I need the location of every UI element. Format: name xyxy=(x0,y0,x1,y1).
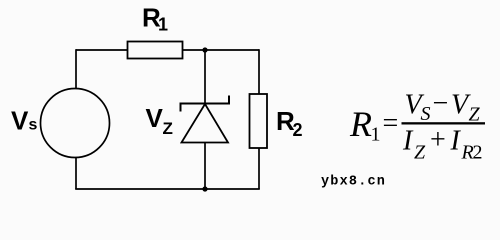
svg-text:−: − xyxy=(433,88,449,119)
wire bottom horizontal xyxy=(75,188,260,190)
node junction top xyxy=(202,47,207,52)
svg-text:Z: Z xyxy=(414,142,426,164)
wire right vertical upper xyxy=(258,49,260,94)
svg-text:=: = xyxy=(383,108,399,139)
svg-text:+: + xyxy=(430,125,446,156)
svg-text:V: V xyxy=(11,106,29,136)
svg-text:s: s xyxy=(29,117,38,134)
svg-text:2: 2 xyxy=(473,142,483,164)
wire right vertical lower xyxy=(258,148,260,189)
svg-text:2: 2 xyxy=(293,120,303,140)
wire left vertical upper xyxy=(75,49,77,88)
svg-text:S: S xyxy=(421,103,431,125)
zener diode VZ cathode bar xyxy=(181,96,230,112)
svg-text:1: 1 xyxy=(158,15,168,35)
svg-text:1: 1 xyxy=(371,124,381,146)
node junction bottom xyxy=(202,186,207,191)
voltage source VS xyxy=(41,89,110,158)
svg-text:V: V xyxy=(146,103,164,133)
wire zener branch lower xyxy=(204,143,206,190)
wire top-right horizontal xyxy=(183,49,260,51)
resistor R2 xyxy=(250,94,268,148)
equation fraction bar xyxy=(402,122,486,124)
resistor R1 xyxy=(128,42,183,59)
svg-text:I: I xyxy=(402,126,414,157)
wire top-left horizontal xyxy=(76,49,128,51)
zener diode VZ triangle xyxy=(182,104,229,143)
svg-text:ybx8.cn: ybx8.cn xyxy=(321,175,386,190)
svg-text:I: I xyxy=(450,126,462,157)
wire left vertical lower xyxy=(75,158,77,190)
svg-text:Z: Z xyxy=(163,119,173,138)
equation R1 = (VS-VZ)/(IZ+IR2) xyxy=(349,88,485,164)
wire zener branch upper xyxy=(204,50,206,104)
svg-text:R: R xyxy=(349,104,372,144)
